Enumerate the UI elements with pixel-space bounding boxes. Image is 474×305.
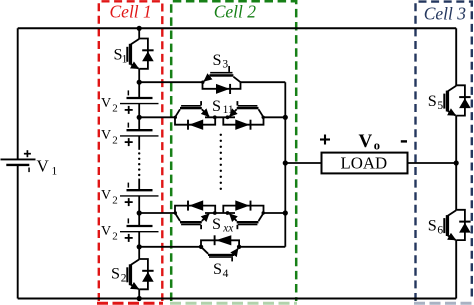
cell1 ellipsis dots — [138, 152, 140, 176]
wire cell2 right bus — [284, 82, 286, 247]
transistor S5 — [428, 85, 471, 115]
wire load to right bus — [408, 162, 457, 164]
svg-text:5: 5 — [437, 100, 443, 112]
node V2c-V2d junction (to Sxx) — [137, 210, 142, 215]
load box — [322, 153, 408, 174]
svg-text:Cell 2: Cell 2 — [214, 2, 257, 22]
battery V2c — [101, 183, 159, 207]
cell 3 dashed box — [414, 2, 472, 304]
transistor S11 — [174, 97, 265, 130]
wire Sxx to cell2 bus — [264, 212, 286, 214]
svg-text:4: 4 — [223, 268, 229, 280]
svg-text:o: o — [374, 139, 380, 153]
wire S4 to cell2 bus — [239, 246, 285, 248]
wire top bus — [18, 27, 457, 29]
svg-text:V: V — [101, 224, 111, 239]
svg-text:11: 11 — [223, 104, 234, 116]
svg-text:S: S — [111, 265, 120, 283]
node Sxx-bus junction — [283, 210, 288, 215]
wire dots to battery V2c — [138, 179, 140, 190]
node load right junction — [454, 160, 459, 165]
node V2d-S2 junction (to S4) — [137, 244, 142, 249]
battery V2d — [101, 218, 159, 242]
wire cell2 bus to load — [285, 162, 321, 164]
cell2 ellipsis dots — [220, 134, 222, 190]
svg-text:6: 6 — [437, 224, 443, 236]
transistor S4 — [199, 235, 242, 280]
label Vo minus — [401, 140, 407, 142]
svg-text:3: 3 — [222, 59, 228, 71]
battery V2a — [101, 90, 159, 114]
svg-text:S: S — [428, 216, 437, 234]
svg-text:V: V — [359, 131, 373, 152]
svg-text:Cell 1: Cell 1 — [110, 2, 152, 22]
transistor S6 — [428, 210, 471, 240]
wire left bus upper — [17, 28, 19, 158]
wire battery V2d to S2 — [138, 232, 140, 260]
node S1-V2a junction (to S3) — [137, 80, 142, 85]
svg-text:2: 2 — [112, 135, 118, 147]
cell 1 dashed box — [97, 1, 163, 303]
wire node D to S4 — [139, 246, 201, 248]
svg-text:1: 1 — [122, 54, 128, 66]
node load left junction — [283, 160, 288, 165]
svg-text:1: 1 — [52, 166, 58, 178]
svg-text:S: S — [213, 260, 222, 278]
svg-text:V: V — [37, 157, 50, 176]
label Vo — [359, 131, 381, 153]
svg-text:2: 2 — [112, 195, 118, 207]
transistor S3 — [201, 51, 240, 94]
svg-text:Cell 3: Cell 3 — [424, 3, 467, 23]
wire right bus middle — [455, 116, 457, 210]
svg-text:2: 2 — [121, 273, 127, 285]
wire S3 to cell2 bus — [241, 81, 286, 83]
svg-text:S: S — [428, 92, 437, 110]
battery V1 — [1, 150, 58, 177]
wire S2 to bottom bus — [138, 289, 140, 298]
wire bottom bus — [18, 298, 457, 300]
node S11-bus junction — [283, 115, 288, 120]
battery V2b — [101, 123, 159, 147]
wire battery V2c to V2d — [138, 196, 140, 225]
svg-text:S: S — [213, 51, 222, 69]
svg-text:S: S — [212, 97, 221, 115]
label Vo plus — [320, 135, 330, 145]
svg-text:LOAD: LOAD — [341, 154, 388, 173]
wire battery V2a to V2b — [138, 104, 140, 130]
svg-text:V: V — [101, 128, 111, 143]
wire node A to S3 — [139, 81, 202, 83]
wire node C to Sxx — [139, 212, 175, 214]
svg-text:xx: xx — [222, 222, 234, 234]
cell 2 dashed box — [170, 1, 297, 303]
svg-text:2: 2 — [112, 231, 118, 243]
wire node B to S11 — [139, 116, 175, 118]
wire left bus lower — [17, 166, 19, 299]
node V2a-V2b junction (to S11) — [137, 115, 142, 120]
transistor Sxx — [174, 200, 265, 234]
svg-text:V: V — [101, 96, 111, 111]
svg-text:2: 2 — [112, 103, 118, 115]
transistor S2 — [111, 259, 154, 289]
wire right bus top — [455, 28, 457, 85]
svg-text:S: S — [212, 215, 221, 233]
transistor S1 — [114, 39, 154, 69]
wire cell1 column top — [138, 28, 140, 38]
node S2 bottom bus junction — [137, 296, 142, 301]
wire battery V2b down — [138, 136, 140, 150]
wire S11 to cell2 bus — [264, 116, 286, 118]
svg-text:V: V — [101, 188, 111, 203]
node S1 top / top bus junction — [137, 26, 142, 31]
wire S1 to battery V2a — [138, 69, 140, 97]
wire right bus bottom — [455, 240, 457, 298]
